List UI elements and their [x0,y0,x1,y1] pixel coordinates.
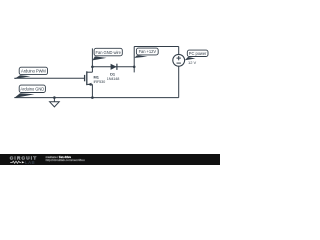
wire M1 source lead [91,84,93,97]
flag Arduino GND [14,85,45,98]
junction node at D1 cathode / Fan +12V [133,66,136,69]
wire bottom ground rail [14,97,178,99]
junction node ground tap [53,96,56,99]
voltage source V1 12V PC power [173,54,197,66]
wire V1 positive lead [178,47,180,55]
svg-text:Fan GND wire: Fan GND wire [96,50,122,55]
junction node at D1 anode / M1 drain [91,66,94,69]
wire top rail [134,46,179,48]
wire V1 negative lead [178,66,180,97]
wire gate (Arduino PWM to M1 gate) [14,77,84,79]
svg-text:1N4148: 1N4148 [107,77,119,81]
svg-text:Arduino PWM: Arduino PWM [21,69,46,74]
svg-text:12 V: 12 V [188,60,197,65]
flag Fan GND wire [93,48,123,60]
wire Fan GND pole / M1 drain [91,48,93,72]
svg-text:Fan +12V: Fan +12V [139,49,157,54]
svg-text:M1: M1 [94,75,100,80]
svg-text:http://circuitlab.com/cem46uu: http://circuitlab.com/cem46uu [46,158,85,162]
flag Fan +12V [134,48,158,58]
footer bar [0,154,220,165]
flag PC power [185,50,208,60]
svg-text:LAB: LAB [25,160,35,165]
footer caption [46,155,85,162]
svg-text:D1: D1 [110,71,116,76]
svg-text:IRF530: IRF530 [94,80,106,84]
footer CircuitLab logo [10,155,38,164]
diode D1 1N4148 [107,64,119,81]
svg-text:PC power: PC power [189,51,207,56]
svg-text:Arduino GND: Arduino GND [20,87,44,92]
wire Fan +12V pole [133,47,135,73]
flag Arduino PWM [14,67,47,79]
wire diode rail [92,66,134,68]
transistor M1 IRF530 [85,71,105,86]
junction node M1 source / ground rail [91,96,94,99]
ground [50,98,60,107]
